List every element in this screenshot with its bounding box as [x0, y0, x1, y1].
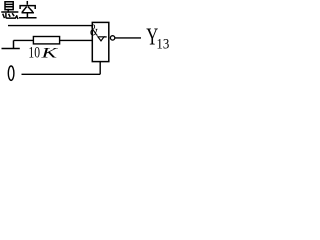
- svg-text:10: 10: [28, 45, 40, 62]
- wire: vertical riser from bar: [13, 40, 15, 48]
- char 悬 top 且 box: [5, 2, 13, 10]
- wire: ground bar bottom-left: [2, 48, 20, 50]
- wire: bar to resistor: [14, 39, 34, 41]
- wire: riser to gate bottom pin 3: [99, 62, 101, 75]
- wire: floating input to gate pin 1: [8, 25, 92, 27]
- svg-text:13: 13: [156, 37, 169, 53]
- tri-state marker triangle: [98, 37, 104, 41]
- label Y13: [146, 23, 169, 52]
- small dash right of triangle: [104, 36, 107, 38]
- wire: gate output: [115, 37, 141, 39]
- wire: 0 input: [22, 73, 101, 75]
- char 空 roof: [26, 2, 28, 4]
- label 0 (logic low input): [8, 66, 14, 80]
- resistor R (10K) body: [33, 37, 59, 44]
- label 悬空 (floating) hand-drawn glyphs: [2, 2, 36, 19]
- char 悬 heart 心: [3, 14, 4, 17]
- svg-text:&: &: [90, 21, 98, 40]
- char 空 工: [20, 13, 36, 18]
- label 10K: [28, 45, 59, 62]
- char 悬 long horizontal: [2, 11, 18, 13]
- char 悬 tick: [7, 10, 9, 12]
- char 空 八: [22, 7, 32, 12]
- wire: resistor to gate pin 2: [60, 39, 93, 41]
- NAND gate U1 body: [92, 22, 109, 61]
- svg-text:K: K: [40, 46, 59, 62]
- output inversion bubble: [110, 36, 114, 40]
